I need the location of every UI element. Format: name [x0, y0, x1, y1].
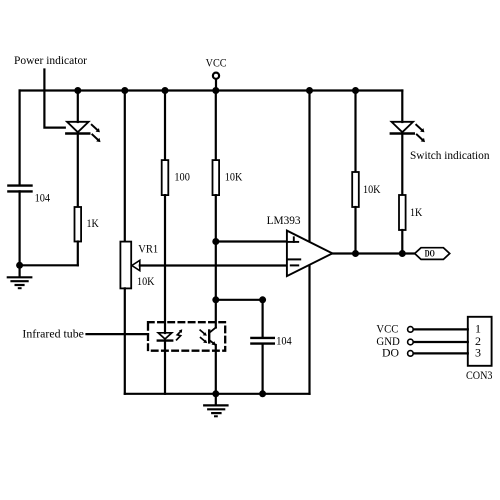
svg-text:104: 104 [35, 190, 51, 204]
ground (bottom) [204, 394, 227, 417]
wire: left branch down to capacitor [19, 91, 21, 185]
resistor R1 1K (left) [75, 207, 82, 242]
wire: collector node down to phototransistor [215, 300, 217, 328]
node: output junction at R4 [352, 250, 359, 257]
wire: rail to VR1 top [124, 91, 126, 242]
wire: R3 bottom to plus-input node [215, 195, 217, 241]
pin 2 terminal circle [408, 339, 414, 345]
svg-text:1K: 1K [87, 216, 100, 230]
junction on rail at right 10K [352, 87, 359, 94]
svg-text:Switch indication: Switch indication [410, 148, 490, 162]
wire: R1 bottom to ground wire [77, 242, 79, 266]
wire: LED1 cathode to R1 [77, 134, 79, 208]
capacitor C1 104 (left) [8, 186, 31, 192]
wire: collector node to capacitor C2 [216, 299, 263, 301]
node: plus input junction [212, 238, 219, 245]
svg-text:3: 3 [475, 345, 481, 359]
wire: LED2 cathode to R5 top [401, 134, 403, 196]
junction on rail at center column [212, 87, 219, 94]
svg-text:DO: DO [382, 345, 399, 359]
svg-text:1K: 1K [410, 205, 423, 219]
resistor R3 10K (left) [213, 160, 220, 195]
svg-text:10K: 10K [137, 274, 155, 288]
node: left ground junction [16, 262, 23, 269]
node: C2 junction on bottom rail [259, 390, 266, 397]
wire: R2 bottom to IR LED [164, 195, 166, 333]
wire: top VCC rail [20, 89, 403, 91]
wire: rail to R2 top [164, 91, 166, 161]
phototransistor Q1 [200, 328, 216, 346]
wire: phototransistor emitter to bottom rail [215, 345, 217, 394]
wire: ground node to 1K bottom [20, 264, 78, 266]
svg-text:100: 100 [174, 169, 190, 183]
op-amp U1 LM393 [287, 231, 333, 277]
pin 1 terminal circle [408, 327, 414, 333]
svg-text:VR1: VR1 [138, 242, 158, 256]
wire: rail to LED1 anode [77, 91, 79, 123]
node: emitter junction on bottom rail [212, 390, 219, 397]
pin 3 wire [413, 352, 468, 354]
LED D1 power indicator [66, 122, 100, 142]
wire: R4 bottom to output line [354, 207, 356, 254]
capacitor C2 104 (bottom) [251, 300, 273, 394]
dashed box around infrared tube [148, 322, 225, 351]
svg-text:10K: 10K [363, 182, 381, 196]
wire: rail to R4 top [354, 91, 356, 173]
wire: capacitor bottom to ground node [19, 191, 21, 265]
leader line to LED1 [44, 70, 64, 128]
svg-text:DO: DO [425, 250, 435, 260]
wire: bottom ground rail [125, 393, 310, 395]
junction on rail at VR1 [121, 87, 128, 94]
potentiometer VR1 10K [120, 242, 139, 289]
net VCC terminal [213, 73, 219, 91]
wire: op-amp column (passes behind op-amp) [308, 91, 310, 394]
svg-text:10K: 10K [225, 169, 243, 183]
wire: junction to op-amp non-inverting input [216, 240, 298, 242]
wire: rail to R3 top [215, 91, 217, 161]
LED D2 switch indication [391, 122, 425, 142]
resistor R2 100 [162, 160, 169, 195]
svg-text:VCC: VCC [206, 56, 227, 70]
pin 3 terminal circle [408, 351, 414, 357]
wire: VR1 wiper to op-amp inverting input [140, 264, 298, 266]
connector CON3 [468, 317, 492, 366]
resistor R4 10K (right) [352, 172, 359, 207]
node: capacitor C2 top junction [259, 296, 266, 303]
leader line to dashed box [87, 333, 149, 335]
svg-text:LM393: LM393 [267, 213, 301, 227]
junction on rail at op-amp column [306, 87, 313, 94]
svg-text:104: 104 [276, 334, 292, 348]
wire: IR LED cathode to bottom rail [164, 341, 166, 394]
pin 1 wire [413, 328, 468, 330]
IR LED D3 (emitter) [158, 329, 182, 340]
wire: rail right end down to LED2 [401, 91, 403, 123]
svg-text:Power indicator: Power indicator [14, 53, 87, 67]
svg-text:Infrared tube: Infrared tube [22, 327, 84, 341]
node: output junction at R5 [399, 250, 406, 257]
junction on rail at R100 [162, 87, 169, 94]
wire: op-amp output to DO tag [332, 252, 414, 254]
node: collector junction [212, 296, 219, 303]
wire: R5 bottom to output line [401, 230, 403, 254]
wire: junction down to collector node [215, 242, 217, 300]
ground (left) [8, 265, 32, 288]
wire: VR1 bottom to bottom rail [124, 288, 126, 393]
svg-text:CON3: CON3 [466, 368, 493, 382]
pin 2 wire [413, 341, 468, 343]
junction on rail at LED1 [74, 87, 81, 94]
net flag DO (output tag) [415, 248, 450, 260]
resistor R5 1K (right) [399, 195, 406, 230]
